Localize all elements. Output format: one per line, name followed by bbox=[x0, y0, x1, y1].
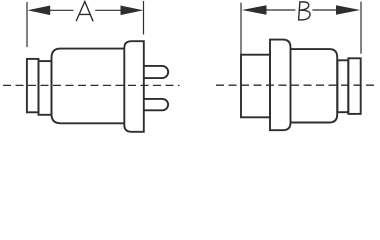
receptacle nose bbox=[241, 55, 270, 118]
upper prong bbox=[144, 66, 168, 78]
receptacle flange bbox=[270, 40, 291, 131]
wire: left figure centerline (dash) bbox=[3, 84, 180, 86]
lower prong bbox=[144, 99, 168, 110]
plug body bbox=[52, 49, 125, 124]
arrowhead B left bbox=[242, 5, 267, 14]
dimension line B left segment bbox=[266, 9, 295, 11]
receptacle cap outer ring bbox=[348, 58, 360, 114]
receptacle cap inner ring bbox=[337, 60, 348, 112]
plug cap inner ring bbox=[39, 61, 52, 115]
extension line left of A bbox=[26, 2, 28, 47]
dimension B bbox=[241, 2, 361, 55]
plug cap outer ring bbox=[27, 59, 39, 112]
dimension line A left segment bbox=[50, 9, 74, 11]
dimension line B right segment bbox=[312, 9, 336, 11]
dimension A bbox=[27, 1, 144, 47]
plug flange bbox=[124, 41, 144, 132]
arrowhead B right bbox=[336, 5, 360, 14]
extension line right of A bbox=[143, 1, 145, 35]
dimension line A right segment bbox=[95, 9, 121, 11]
wire: right figure centerline (dash) bbox=[216, 84, 374, 86]
extension line right of B bbox=[360, 2, 362, 54]
label A bbox=[76, 2, 93, 21]
label B bbox=[299, 2, 310, 20]
extension line left of B bbox=[240, 3, 242, 55]
arrowhead A left bbox=[28, 6, 51, 16]
arrowhead A right bbox=[121, 6, 144, 16]
receptacle body bbox=[291, 49, 338, 122]
